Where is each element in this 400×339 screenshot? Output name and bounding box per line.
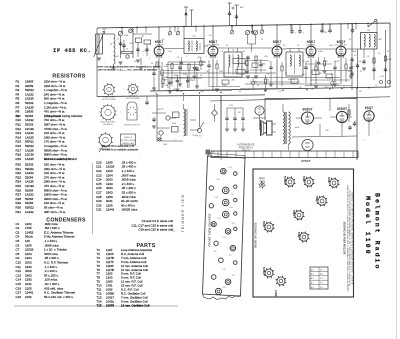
svg-text:.0001: .0001 xyxy=(352,51,357,53)
svg-text:6.3: 6.3 xyxy=(269,61,272,63)
svg-text:6V6GT: 6V6GT xyxy=(283,176,287,185)
svg-text:1A232: 1A232 xyxy=(25,210,34,214)
svg-text:.005: .005 xyxy=(329,45,333,47)
svg-text:BOTTOM VIEW OF CHASSIS: BOTTOM VIEW OF CHASSIS xyxy=(344,221,347,254)
svg-text:C18: C18 xyxy=(214,197,217,199)
svg-text:LINE VOLTAGE 117 V. A.C. — VOL: LINE VOLTAGE 117 V. A.C. — VOL. CONTROL … xyxy=(97,68,157,71)
svg-text:.0001: .0001 xyxy=(318,51,323,53)
svg-text:C12: C12 xyxy=(230,194,233,196)
svg-text:C18: C18 xyxy=(16,295,22,299)
svg-text:.005: .005 xyxy=(164,85,168,87)
svg-text:6X5GT: 6X5GT xyxy=(262,267,266,276)
svg-text:VIEW OF: VIEW OF xyxy=(124,137,133,139)
svg-text:FREQUENCY: FREQUENCY xyxy=(239,148,254,150)
svg-text:6SQ7: 6SQ7 xyxy=(337,40,346,44)
svg-text:88 v: 88 v xyxy=(320,274,323,276)
svg-text:6X5GT: 6X5GT xyxy=(337,107,347,111)
svg-text:BOTTOM VIEW: BOTTOM VIEW xyxy=(126,98,140,100)
svg-text:6SQ7: 6SQ7 xyxy=(365,106,373,110)
svg-text:55: 55 xyxy=(239,91,241,93)
svg-text:C19 and C20 in same unit: C19 and C20 in same unit xyxy=(138,228,173,232)
svg-text:Belmont Radio: Belmont Radio xyxy=(374,193,381,270)
svg-text:455 KC: 455 KC xyxy=(157,109,164,111)
svg-text:1M: 1M xyxy=(302,74,305,76)
svg-text:C22: C22 xyxy=(217,218,220,220)
svg-text:47M: 47M xyxy=(335,61,339,63)
svg-text:6V6GT: 6V6GT xyxy=(301,159,311,163)
svg-text:IF 455 KC.: IF 455 KC. xyxy=(53,48,91,54)
svg-text:C29: C29 xyxy=(222,287,225,289)
svg-text:70: 70 xyxy=(353,67,355,69)
svg-text:R31: R31 xyxy=(16,210,22,214)
svg-text:.005: .005 xyxy=(264,56,268,58)
svg-text:and tone switch (N0: and tone switch (N0 xyxy=(44,157,71,161)
svg-text:220: 220 xyxy=(197,57,200,59)
svg-text:6SA7: 6SA7 xyxy=(327,177,331,184)
svg-text:TRIMMER VIEW: TRIMMER VIEW xyxy=(181,194,185,233)
svg-text:70: 70 xyxy=(283,45,285,47)
svg-text:40: 40 xyxy=(243,51,245,53)
svg-text:15: 15 xyxy=(387,51,389,53)
svg-text:.005: .005 xyxy=(202,62,206,64)
svg-text:.0005: .0005 xyxy=(294,127,300,129)
svg-text:CONVERTER: CONVERTER xyxy=(207,45,220,47)
svg-text:C31: C31 xyxy=(96,208,102,212)
svg-text:C40: C40 xyxy=(231,275,234,277)
svg-text:13 mm. Oscillator Coil: 13 mm. Oscillator Coil xyxy=(121,303,150,307)
svg-text:.05: .05 xyxy=(311,89,314,91)
svg-text:C27: C27 xyxy=(228,255,231,257)
svg-text:REAR OF CHASSIS: REAR OF CHASSIS xyxy=(255,222,258,247)
svg-text:55: 55 xyxy=(189,80,191,82)
svg-text:.1: .1 xyxy=(255,33,257,35)
svg-text:1A235: 1A235 xyxy=(25,157,34,161)
svg-text:6SQ7: 6SQ7 xyxy=(297,232,301,239)
svg-text:1ST AUDIO: 1ST AUDIO xyxy=(103,123,113,126)
svg-text:A 8: A 8 xyxy=(311,268,314,271)
svg-text:6V6GT: 6V6GT xyxy=(302,107,312,111)
svg-text:6SQ7: 6SQ7 xyxy=(259,178,265,180)
svg-text:C31: C31 xyxy=(222,237,225,239)
svg-text:LAMP: LAMP xyxy=(274,290,278,297)
svg-text:A 7: A 7 xyxy=(311,273,314,276)
svg-text:C14: C14 xyxy=(228,167,231,169)
svg-text:.05: .05 xyxy=(367,56,370,58)
svg-text:35 v: 35 v xyxy=(320,269,323,271)
svg-text:10: 10 xyxy=(359,61,361,63)
svg-text:←: ← xyxy=(172,226,175,229)
svg-text:.02: .02 xyxy=(302,61,305,63)
svg-text:70: 70 xyxy=(177,57,179,59)
svg-text:97 v: 97 v xyxy=(320,283,323,285)
svg-text:455: 455 xyxy=(258,108,263,111)
svg-text:2M2: 2M2 xyxy=(378,39,382,41)
svg-text:INTERMEDIATE: INTERMEDIATE xyxy=(238,144,255,147)
svg-text:A 4: A 4 xyxy=(311,277,314,280)
svg-text:15: 15 xyxy=(257,85,259,87)
svg-text:6SK7: 6SK7 xyxy=(273,40,282,44)
svg-text:WIRING SIDE: WIRING SIDE xyxy=(122,143,135,145)
svg-text:.0005: .0005 xyxy=(288,79,293,81)
svg-text:I.F. AMP: I.F. AMP xyxy=(273,44,281,47)
svg-text:C26: C26 xyxy=(231,223,234,225)
svg-text:2M2: 2M2 xyxy=(262,64,266,66)
svg-text:6V6GT OUTPUT: 6V6GT OUTPUT xyxy=(124,124,140,126)
svg-text:1062: 1062 xyxy=(25,295,32,299)
svg-text:.00025 mica: .00025 mica xyxy=(121,208,138,212)
svg-text:100: 100 xyxy=(168,51,171,53)
svg-text:6SA7: 6SA7 xyxy=(209,40,218,44)
svg-text:DET. AVC: DET. AVC xyxy=(307,44,316,47)
svg-text:15: 15 xyxy=(221,51,223,53)
svg-text:AT 455 KC — USE DUMMY ANTENNA: AT 455 KC — USE DUMMY ANTENNA FOR ALL AL… xyxy=(351,191,354,284)
svg-text:15: 15 xyxy=(149,44,151,46)
svg-text:6X5GT RECT.: 6X5GT RECT. xyxy=(99,148,113,150)
svg-text:55: 55 xyxy=(349,39,351,41)
svg-text:.005: .005 xyxy=(129,43,133,45)
svg-text:A 7: A 7 xyxy=(311,282,314,285)
svg-text:12441: 12441 xyxy=(106,208,115,212)
svg-text:BOTTOM VIEW: BOTTOM VIEW xyxy=(102,99,116,101)
svg-text:KC: KC xyxy=(258,112,261,114)
svg-text:T16: T16 xyxy=(97,303,102,307)
svg-text:.1: .1 xyxy=(302,33,304,35)
svg-text:C34: C34 xyxy=(216,179,219,181)
svg-text:220: 220 xyxy=(333,82,336,84)
svg-text:DET. AVC A.F.: DET. AVC A.F. xyxy=(335,44,348,47)
svg-text:6.3: 6.3 xyxy=(162,39,165,41)
svg-text:C33: C33 xyxy=(229,207,232,209)
svg-text:10: 10 xyxy=(375,85,377,87)
svg-text:6SK7: 6SK7 xyxy=(307,40,316,44)
svg-text:10979: 10979 xyxy=(106,303,114,307)
svg-text:57 v: 57 v xyxy=(320,278,323,280)
svg-text:4M7 ohm—½ w.: 4M7 ohm—½ w. xyxy=(44,210,66,214)
svg-text:2M2: 2M2 xyxy=(115,56,119,58)
svg-text:.1: .1 xyxy=(185,56,187,58)
svg-text:.0005: .0005 xyxy=(386,59,392,61)
svg-text:.1: .1 xyxy=(294,33,296,35)
svg-text:Model 1100: Model 1100 xyxy=(364,196,371,256)
svg-text:50.4 mfd. tub. x 450 v.: 50.4 mfd. tub. x 450 v. xyxy=(44,295,74,299)
svg-text:6SA7: 6SA7 xyxy=(262,221,266,228)
svg-text:55: 55 xyxy=(110,44,112,46)
svg-text:NOTE: VOLTAGES MEASURED WITH 1: NOTE: VOLTAGES MEASURED WITH 1000 OHM/VO… xyxy=(97,66,161,69)
svg-text:R.F. AMP: R.F. AMP xyxy=(155,44,164,47)
svg-text:.1: .1 xyxy=(205,56,207,58)
svg-text:.0001: .0001 xyxy=(124,35,129,37)
svg-text:6SK7: 6SK7 xyxy=(292,210,296,217)
svg-text:70: 70 xyxy=(226,45,228,47)
svg-text:R19: R19 xyxy=(16,157,22,161)
svg-text:C12: C12 xyxy=(222,269,225,271)
svg-text:SOCKETS FROM: SOCKETS FROM xyxy=(120,140,136,142)
svg-text:.05: .05 xyxy=(297,45,300,47)
svg-text:6SQ7: 6SQ7 xyxy=(315,196,319,203)
svg-text:.05: .05 xyxy=(209,35,212,37)
svg-text:FRONT VIEW CHASSIS: FRONT VIEW CHASSIS xyxy=(208,213,212,246)
svg-text:100: 100 xyxy=(200,91,203,93)
svg-text:1M: 1M xyxy=(238,112,241,114)
svg-text:.005: .005 xyxy=(179,91,183,93)
svg-text:40: 40 xyxy=(307,61,309,63)
svg-text:6SK7: 6SK7 xyxy=(302,176,306,183)
svg-text:47M: 47M xyxy=(183,74,187,76)
svg-text:6.3: 6.3 xyxy=(143,51,146,53)
svg-text:25M: 25M xyxy=(163,144,167,146)
svg-text:RESISTORS: RESISTORS xyxy=(52,74,85,80)
svg-text:6.3: 6.3 xyxy=(279,91,282,93)
svg-text:25M: 25M xyxy=(172,123,176,125)
svg-text:55: 55 xyxy=(261,39,263,41)
svg-text:29 v: 29 v xyxy=(320,287,323,289)
svg-text:C32: C32 xyxy=(213,251,216,253)
svg-text:55: 55 xyxy=(267,80,269,82)
svg-text:250: 250 xyxy=(171,82,174,84)
svg-text:1M: 1M xyxy=(103,29,106,31)
svg-text:A 4: A 4 xyxy=(311,286,314,289)
svg-text:.0001: .0001 xyxy=(173,75,179,77)
svg-text:.05: .05 xyxy=(359,91,362,93)
